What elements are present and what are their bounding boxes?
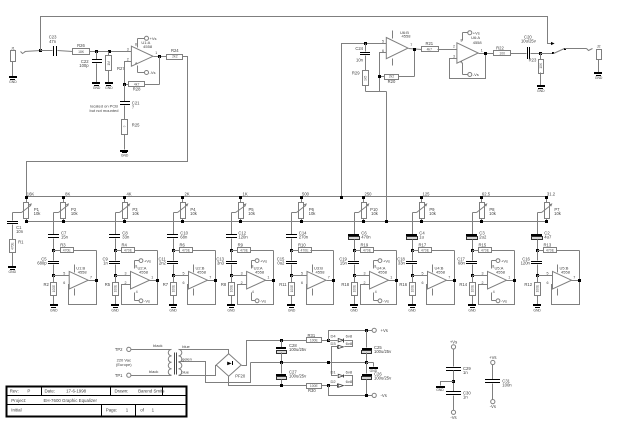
svg-text:GND: GND: [111, 308, 119, 312]
node zero rail mid: [327, 361, 330, 364]
svg-text:1: 1: [151, 275, 153, 279]
svg-text:15n: 15n: [340, 261, 348, 266]
svg-text:4: 4: [460, 61, 462, 65]
capacitor C27: [276, 363, 307, 386]
wire secondary bottom: [179, 366, 217, 376]
svg-text:31.2: 31.2: [547, 191, 556, 196]
pin 8 +Vs of U4:A: [374, 258, 391, 268]
svg-text:but not mounted: but not mounted: [90, 108, 119, 113]
ground for R25: [120, 150, 129, 157]
svg-text:Initial: Initial: [11, 408, 21, 413]
title block: [7, 387, 187, 417]
capacitor C1: [7, 221, 24, 240]
op-amp U5:A: [473, 266, 511, 289]
capacitor C9: [103, 251, 120, 276]
op-amp U3:B: [292, 266, 330, 289]
capacitor C21: [120, 85, 140, 120]
svg-text:3: 3: [364, 272, 366, 276]
svg-text:R3: R3: [60, 242, 66, 247]
capacitor C29: [446, 366, 471, 391]
wire U2:A feedback: [122, 281, 158, 305]
svg-text:470E: 470E: [421, 249, 430, 253]
resistor R12: [524, 276, 540, 305]
svg-text:-Vs: -Vs: [490, 404, 496, 409]
potentiometer P3: [120, 191, 140, 221]
node C9 bottom: [114, 274, 117, 277]
svg-text:5: 5: [422, 272, 424, 276]
potentiometer P6: [297, 191, 317, 221]
svg-text:125: 125: [423, 191, 431, 196]
node decoupling 1: [452, 380, 455, 383]
node C6 bottom: [353, 249, 356, 252]
svg-text:3n3: 3n3: [217, 261, 225, 266]
pin 4 -Vs of U3:A: [252, 290, 267, 304]
svg-text:10k: 10k: [371, 211, 379, 216]
svg-text:4558: 4558: [561, 269, 571, 274]
svg-text:-Vs: -Vs: [383, 299, 389, 304]
svg-text:4558: 4558: [378, 269, 388, 274]
wire P2 wiper: [54, 213, 59, 235]
op-amp U4:B: [413, 266, 451, 289]
wire zero volt rail: [251, 362, 367, 364]
wire P10 wiper: [355, 213, 359, 235]
resistor R16: [399, 276, 415, 305]
svg-text:500: 500: [302, 191, 310, 196]
svg-text:GND: GND: [350, 308, 358, 312]
ground for R23: [537, 85, 545, 93]
capacitor C15: [277, 251, 297, 276]
wire plus rail: [329, 331, 373, 341]
svg-text:10k: 10k: [71, 211, 79, 216]
node C11 bottom: [172, 274, 175, 277]
svg-text:R25: R25: [132, 122, 140, 127]
resistor R6: [174, 242, 193, 252]
svg-text:R12: R12: [524, 282, 532, 287]
resistor R15: [473, 242, 492, 252]
node U1:A output: [158, 55, 161, 58]
svg-text:GND: GND: [408, 308, 416, 312]
node P2 bottom: [62, 220, 65, 223]
svg-text:4558: 4558: [436, 269, 446, 274]
svg-text:100E: 100E: [470, 285, 474, 292]
svg-text:33n: 33n: [122, 235, 130, 240]
svg-text:D4: D4: [330, 334, 336, 339]
svg-text:2: 2: [127, 57, 129, 61]
svg-text:0u2: 0u2: [277, 261, 285, 266]
svg-text:6: 6: [301, 281, 303, 285]
node P6 top: [300, 196, 303, 199]
capacitor C19: [339, 251, 359, 276]
wire P3 wiper: [116, 213, 120, 235]
node C21 branch: [123, 83, 126, 86]
svg-text:blue: blue: [182, 344, 190, 349]
svg-text:GND: GND: [9, 80, 17, 84]
svg-text:+Vs: +Vs: [144, 258, 151, 263]
node U2:A output: [156, 279, 159, 282]
op-amp U2:B: [174, 266, 212, 289]
svg-text:100E: 100E: [229, 285, 233, 292]
svg-text:R2: R2: [43, 282, 49, 287]
node P4 bottom: [181, 220, 184, 223]
svg-text:J1: J1: [11, 47, 15, 51]
node U3:A output: [272, 279, 275, 282]
node P7 bottom: [545, 220, 548, 223]
node P4 top: [181, 196, 184, 199]
svg-text:100E: 100E: [310, 339, 319, 343]
wire U3:B feedback: [307, 281, 334, 305]
ground for R11: [287, 304, 296, 312]
node top bus feed U6:B: [340, 196, 343, 199]
svg-text:1n: 1n: [463, 395, 468, 400]
resistor R30: [307, 384, 329, 393]
svg-text:8K: 8K: [65, 191, 70, 196]
svg-text:4558: 4558: [402, 34, 412, 39]
ground for R2: [50, 304, 58, 312]
svg-text:10k: 10k: [554, 211, 562, 216]
switch bypass: [541, 48, 587, 54]
wire U6:B output: [409, 49, 422, 50]
svg-text:2k2: 2k2: [172, 55, 178, 59]
terminal +Vs decoupling 2: [489, 355, 496, 379]
svg-text:blue: blue: [181, 369, 189, 374]
svg-text:R24: R24: [171, 48, 179, 53]
resistor R7: [163, 276, 177, 305]
op-amp U2:A: [116, 266, 154, 289]
svg-text:8: 8: [135, 265, 137, 269]
node P9 top: [420, 196, 423, 199]
svg-text:R29: R29: [352, 71, 360, 76]
power stubs U4:B: [432, 265, 434, 296]
capacitor C16: [521, 251, 542, 276]
svg-text:GND: GND: [169, 308, 177, 312]
svg-text:R30: R30: [308, 388, 316, 393]
svg-text:C24: C24: [355, 46, 363, 51]
potentiometer P8: [477, 191, 497, 221]
svg-text:7: 7: [410, 43, 412, 47]
node bottom bus feed: [385, 220, 388, 223]
wire R13 to output: [557, 251, 580, 281]
svg-text:(Europe): (Europe): [116, 362, 132, 367]
svg-text:3: 3: [482, 272, 484, 276]
capacitor C8: [109, 231, 130, 251]
wire R9 to output: [251, 251, 274, 281]
power stubs U1:B: [74, 265, 76, 296]
capacitor C2: [531, 231, 552, 251]
svg-text:GND: GND: [533, 308, 541, 312]
svg-text:470E: 470E: [124, 249, 133, 253]
capacitor C26: [362, 363, 393, 396]
wire minus rail: [329, 386, 373, 396]
node P6 bottom: [300, 220, 303, 223]
potentiometer P4: [178, 191, 198, 221]
node U4:B output: [453, 279, 456, 282]
svg-text:10n: 10n: [356, 57, 364, 62]
capacitor C20: [521, 34, 541, 59]
svg-text:1: 1: [390, 275, 392, 279]
svg-text:1u: 1u: [419, 235, 424, 240]
svg-text:Drawn:: Drawn:: [115, 389, 129, 394]
capacitor C12: [226, 231, 248, 251]
svg-text:-Vs: -Vs: [381, 393, 387, 398]
svg-text:1M: 1M: [107, 61, 111, 66]
svg-text:62.5: 62.5: [482, 191, 491, 196]
node P1 top: [25, 196, 28, 199]
node R27 top: [108, 50, 111, 53]
svg-text:10k: 10k: [309, 211, 317, 216]
svg-text:68n: 68n: [458, 261, 466, 266]
resistor R5: [105, 276, 119, 305]
svg-text:R28: R28: [133, 86, 141, 91]
svg-text:4558: 4558: [78, 269, 88, 274]
svg-text:470E: 470E: [363, 249, 372, 253]
capacitor C17: [457, 251, 477, 276]
svg-text:+Vs: +Vs: [450, 339, 457, 344]
svg-text:15n: 15n: [61, 235, 69, 240]
svg-text:270n: 270n: [299, 235, 309, 240]
svg-text:8: 8: [374, 265, 376, 269]
svg-text:GND: GND: [121, 153, 129, 157]
svg-text:6v8: 6v8: [346, 379, 353, 384]
ground for R14: [468, 304, 476, 312]
wire R10 to output: [311, 251, 334, 281]
resistor R3: [54, 242, 74, 252]
resistor R22: [494, 45, 527, 55]
ground for R16: [408, 304, 416, 312]
svg-text:-Vs: -Vs: [473, 72, 479, 77]
node C25 top: [365, 329, 368, 332]
svg-text:+Vs: +Vs: [150, 36, 157, 41]
svg-text:R31: R31: [308, 333, 316, 338]
op-amp U6:B: [382, 30, 412, 66]
node P5 top: [239, 196, 242, 199]
node U1:B output: [95, 279, 98, 282]
wire U2:B feedback: [188, 281, 216, 305]
ground for R7: [169, 304, 177, 312]
ground for R8: [227, 304, 236, 312]
wire U3:A feedback: [238, 281, 274, 305]
svg-text:D3: D3: [330, 341, 336, 346]
svg-text:6: 6: [422, 281, 424, 285]
terminal -Vs: [372, 393, 387, 398]
wire bottom bus: [27, 221, 547, 223]
svg-text:R9: R9: [238, 242, 244, 247]
svg-text:100E: 100E: [352, 285, 356, 292]
svg-text:R26: R26: [77, 43, 85, 48]
ground for R27: [105, 82, 113, 90]
svg-text:10n: 10n: [16, 229, 24, 234]
svg-text:R14: R14: [459, 282, 467, 287]
svg-text:4: 4: [252, 290, 254, 294]
node C26 bottom: [365, 394, 368, 397]
svg-text:470E: 470E: [546, 249, 555, 253]
node after R26: [95, 50, 98, 53]
svg-text:100E: 100E: [410, 285, 414, 292]
svg-text:Page:: Page:: [106, 408, 117, 413]
svg-text:4558: 4558: [496, 269, 506, 274]
svg-text:47n: 47n: [49, 39, 57, 44]
svg-text:4K: 4K: [126, 191, 131, 196]
svg-text:10k: 10k: [132, 211, 140, 216]
node C27 bottom: [280, 384, 283, 387]
connector J1: [11, 47, 41, 62]
pin 8 +Vs of U2:A: [135, 258, 152, 268]
resistor R19: [355, 242, 374, 252]
resistor R31: [307, 333, 329, 343]
resistor R4: [116, 242, 135, 252]
svg-text:5: 5: [301, 272, 303, 276]
svg-text:100E: 100E: [52, 285, 56, 292]
svg-text:100u/25v: 100u/25v: [374, 375, 392, 380]
svg-text:7: 7: [573, 275, 575, 279]
potentiometer P2: [59, 191, 79, 221]
svg-text:4: 4: [375, 290, 377, 294]
svg-text:R21: R21: [425, 41, 433, 46]
capacitor C13: [216, 251, 237, 276]
svg-text:black: black: [153, 343, 162, 348]
svg-text:3: 3: [125, 272, 127, 276]
svg-text:100p: 100p: [79, 63, 89, 68]
svg-text:100u/25v: 100u/25v: [374, 349, 392, 354]
resistor R29: [352, 71, 369, 92]
op-amp U1:B: [54, 266, 93, 289]
wire R19 to output: [374, 251, 397, 281]
ground decoupling 1: [436, 382, 454, 392]
resistor R1: [10, 240, 25, 267]
node C24 top: [364, 42, 367, 45]
svg-text:100E: 100E: [290, 285, 294, 292]
svg-text:5: 5: [382, 40, 384, 44]
resistor R18: [341, 276, 357, 305]
svg-text:+Vs: +Vs: [383, 258, 390, 263]
pin 4 -Vs of U4:A: [374, 290, 390, 304]
svg-text:GND: GND: [93, 86, 101, 90]
resistor R27: [106, 52, 126, 83]
svg-text:PF20: PF20: [235, 374, 246, 379]
node P1 bottom: [25, 220, 28, 223]
svg-text:R1: R1: [18, 240, 24, 245]
svg-text:Rev:: Rev:: [10, 389, 19, 394]
ground for J1: [9, 62, 17, 85]
svg-text:10K: 10K: [539, 62, 543, 69]
power stubs U2:B: [193, 265, 195, 296]
op-amp U1:A: [127, 40, 157, 66]
wire R29 to bottom bus: [366, 92, 387, 222]
svg-text:7: 7: [90, 275, 92, 279]
node P3 bottom: [123, 220, 126, 223]
node C4 bottom: [411, 249, 414, 252]
resistor R26: [73, 43, 132, 54]
capacitor C7: [48, 231, 69, 251]
resistor R17: [413, 242, 432, 252]
svg-text:3: 3: [453, 54, 455, 58]
wire R4 to output: [135, 251, 158, 281]
node P5 bottom: [239, 220, 242, 223]
ground for R1: [8, 266, 17, 274]
label 220Vac: [116, 358, 132, 367]
svg-text:6: 6: [63, 281, 65, 285]
svg-text:4558: 4558: [473, 40, 483, 45]
svg-text:-Vs: -Vs: [501, 299, 507, 304]
svg-text:R15: R15: [479, 242, 487, 247]
ground zero rail: [367, 363, 379, 373]
svg-text:1k5: 1k5: [364, 75, 368, 80]
svg-text:+Vs: +Vs: [501, 258, 508, 263]
node C3 bottom: [471, 249, 474, 252]
svg-text:4558: 4558: [255, 269, 265, 274]
node U5:B output: [578, 279, 581, 282]
node C7 bottom: [52, 249, 55, 252]
wire U4:B feedback: [427, 281, 455, 305]
ground for R18: [350, 304, 358, 312]
wire bridge minus: [229, 377, 307, 386]
op-amp U3:A: [232, 266, 270, 289]
svg-text:Barend Smits: Barend Smits: [138, 389, 165, 394]
svg-text:1n: 1n: [103, 261, 108, 266]
svg-text:100: 100: [499, 51, 505, 55]
wire U1:A output: [154, 56, 167, 58]
wire U6:B feedback: [380, 50, 415, 77]
resistor R8: [221, 276, 235, 305]
node C13 bottom: [230, 274, 233, 277]
node C2 bottom: [536, 249, 539, 252]
capacitor C30: [446, 391, 471, 411]
resistor R25: [122, 120, 141, 150]
svg-text:16K: 16K: [27, 191, 35, 196]
svg-text:17-6-1998: 17-6-1998: [66, 389, 87, 394]
node U6:B feedback: [378, 75, 381, 78]
capacitor C28: [276, 339, 307, 363]
pin 8 +Vs of U3:A: [251, 258, 267, 268]
svg-text:R6: R6: [180, 242, 186, 247]
wire R17 to output: [432, 251, 455, 281]
svg-text:680p: 680p: [37, 261, 47, 266]
op-amp U6:A: [453, 35, 483, 63]
wire U1:B feedback: [69, 281, 97, 305]
svg-text:GND: GND: [227, 308, 235, 312]
pin 4 -Vs of U1:A: [135, 62, 155, 76]
resistor R2: [43, 276, 56, 305]
resistor R20: [385, 75, 399, 84]
svg-text:6: 6: [547, 281, 549, 285]
terminal -Vs decoupling 2: [490, 400, 496, 410]
svg-text:5: 5: [547, 272, 549, 276]
svg-text:4k7: 4k7: [427, 48, 433, 52]
capacitor C11: [159, 251, 178, 276]
capacitor C31: [485, 379, 512, 400]
node input: [39, 49, 42, 52]
terminal +Vs: [372, 328, 388, 333]
svg-text:4: 4: [135, 62, 137, 66]
svg-text:18K: 18K: [78, 50, 85, 54]
svg-text:10k: 10k: [489, 211, 497, 216]
svg-text:GND: GND: [436, 388, 444, 392]
svg-text:470E: 470E: [301, 249, 310, 253]
svg-text:470E: 470E: [182, 249, 191, 253]
power stubs U3:B: [312, 265, 314, 296]
node C17 bottom: [471, 274, 474, 277]
svg-text:4: 4: [136, 290, 138, 294]
svg-text:GND: GND: [595, 76, 603, 80]
svg-text:470n: 470n: [361, 235, 371, 240]
svg-text:6v8: 6v8: [346, 369, 353, 374]
node U6:A output: [484, 52, 487, 55]
svg-text:R7: R7: [163, 282, 169, 287]
node C18 bottom: [411, 274, 414, 277]
svg-text:P: P: [27, 389, 30, 394]
node P7 top: [545, 196, 548, 199]
svg-text:470E: 470E: [11, 242, 15, 249]
svg-text:?: ?: [123, 125, 127, 127]
